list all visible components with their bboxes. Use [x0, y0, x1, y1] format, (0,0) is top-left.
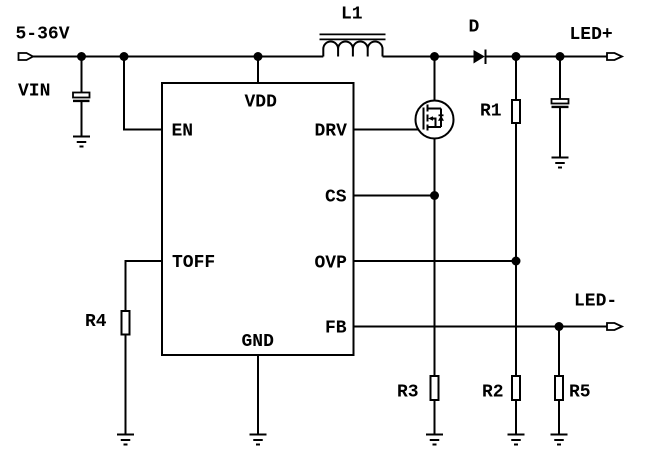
svg-text:FB: FB — [325, 319, 347, 339]
wire FB — [354, 326, 608, 328]
wire top right — [486, 56, 607, 58]
wire C2 top — [559, 57, 561, 100]
resistor R2 — [512, 376, 520, 400]
resistor R4 — [122, 311, 130, 335]
resistor R3 — [431, 376, 439, 400]
svg-text:DRV: DRV — [315, 122, 348, 142]
transistor Q1 body diode triangle — [438, 116, 444, 121]
wire R1 to R2 — [515, 123, 517, 376]
resistor R1 — [512, 100, 520, 123]
capacitor C2 top plate — [552, 99, 569, 104]
wire source to R3 — [434, 127, 436, 376]
junction at switch node — [430, 52, 439, 61]
wire top mid — [383, 56, 474, 58]
transistor Q1 body diode branch — [440, 109, 442, 128]
inductor L1 windings — [323, 41, 382, 56]
diode D cathode bar — [485, 50, 487, 65]
svg-text:LED-: LED- — [574, 292, 617, 312]
wire EN — [124, 57, 162, 130]
junction at FB node — [555, 322, 564, 331]
inductor L1 core bars — [320, 34, 386, 39]
wire R1 top — [515, 57, 517, 101]
svg-text:OVP: OVP — [315, 254, 348, 274]
ground R4 — [117, 435, 134, 445]
ground R2 — [508, 435, 525, 445]
transistor Q1 drain tap — [428, 108, 442, 110]
ground GND pin — [250, 435, 267, 445]
port LED- — [607, 323, 622, 330]
wire DRV — [354, 129, 424, 131]
svg-text:R3: R3 — [397, 383, 419, 403]
ground R5 — [551, 435, 568, 445]
wire TOFF — [126, 261, 163, 311]
wire C2 bottom — [559, 108, 561, 158]
svg-text:VDD: VDD — [245, 93, 278, 113]
transistor Q1 source tap — [428, 126, 442, 128]
wire R5 to ground — [558, 400, 560, 435]
port LED+ — [607, 53, 622, 60]
svg-text:LED+: LED+ — [570, 25, 613, 45]
wire R3 to ground — [434, 400, 436, 435]
junction at R1 top — [512, 52, 521, 61]
svg-text:5-36V: 5-36V — [16, 25, 70, 45]
junction at OVP node — [512, 257, 521, 266]
transistor Q1 gate bar — [423, 108, 425, 130]
svg-text:GND: GND — [242, 332, 275, 352]
ground R3 — [426, 435, 443, 445]
junction at VDD branch — [254, 52, 263, 61]
port VIN — [19, 53, 34, 60]
svg-text:TOFF: TOFF — [172, 253, 215, 273]
wire GND pin — [257, 355, 259, 435]
wire C1 top — [81, 57, 83, 93]
wire CS — [354, 195, 435, 197]
wire top left — [33, 56, 323, 58]
transistor Q1 source arrow — [428, 116, 433, 120]
transistor Q1 body diode bar — [439, 114, 444, 116]
transistor Q1 source link — [433, 119, 436, 128]
svg-text:D: D — [469, 18, 480, 38]
ground C1 — [73, 137, 90, 147]
IC U1 — [162, 83, 354, 355]
wire R2 to ground — [515, 400, 517, 435]
svg-text:R4: R4 — [85, 312, 107, 332]
wire OVP — [354, 260, 517, 262]
capacitor C2 bottom plate — [552, 106, 569, 108]
junction at VIN cap — [77, 52, 86, 61]
svg-text:R5: R5 — [569, 383, 591, 403]
transistor Q1 body — [416, 101, 454, 139]
capacitor C1 bottom plate — [73, 100, 90, 102]
resistor R5 — [555, 376, 563, 400]
junction at EN branch — [120, 52, 129, 61]
svg-text:CS: CS — [325, 188, 347, 208]
wire VDD — [257, 57, 259, 84]
junction at C2 top — [556, 52, 565, 61]
svg-text:EN: EN — [172, 122, 194, 142]
wire R4 to ground — [125, 335, 127, 435]
transistor Q1 channel — [427, 105, 429, 131]
junction at CS node — [430, 191, 439, 200]
diode D triangle — [474, 50, 485, 64]
ground C2 — [552, 158, 569, 168]
capacitor C1 top plate — [73, 93, 90, 98]
wire drain — [434, 57, 436, 109]
svg-text:L1: L1 — [341, 5, 363, 25]
svg-text:R1: R1 — [480, 102, 502, 122]
wire R5 top — [558, 327, 560, 377]
svg-text:R2: R2 — [482, 383, 504, 403]
wire C1 bottom — [81, 101, 83, 137]
svg-text:VIN: VIN — [18, 82, 50, 102]
